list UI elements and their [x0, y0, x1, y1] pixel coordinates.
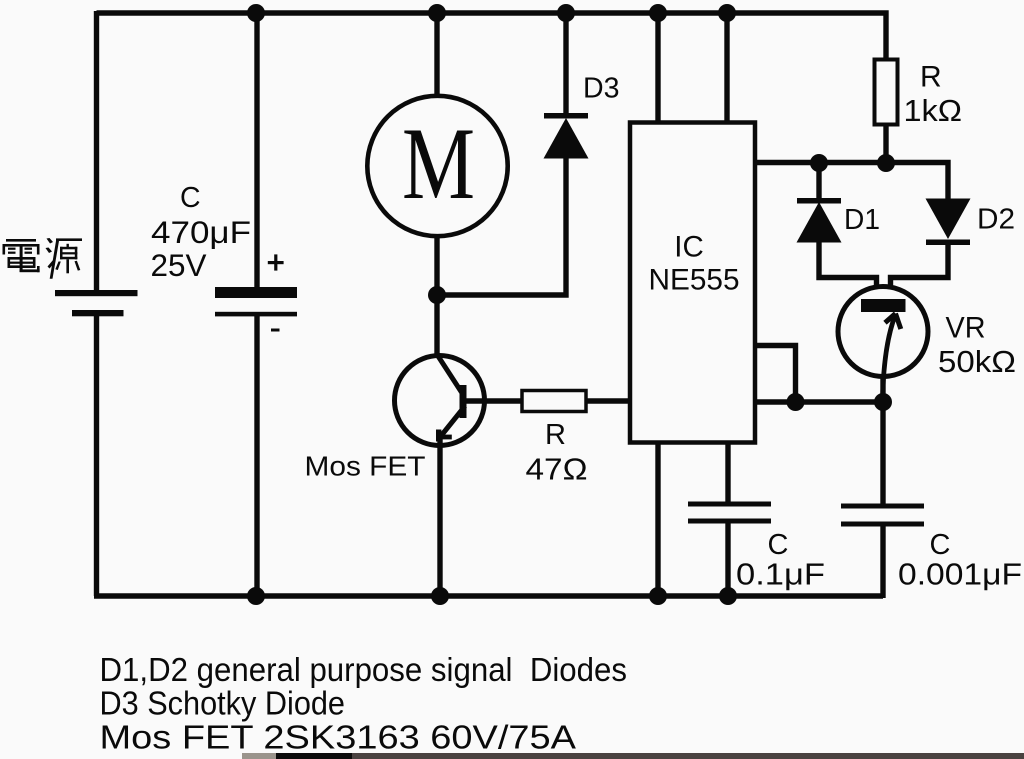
IC NE555 body [630, 123, 755, 443]
wire IC pin jog to control node [755, 346, 796, 403]
junction node bottom rail at C470 [247, 587, 265, 605]
screen artifact strip dark gray segment [352, 753, 1024, 759]
junction node D1 top [810, 154, 828, 172]
svg-text:25V: 25V [151, 247, 207, 283]
wire D3 cathode lead to top rail [563, 13, 568, 115]
junction node VR wiper [874, 393, 892, 411]
wire left vertical from top rail to battery [94, 11, 99, 291]
wire IC right pin to D1 D2 node row [755, 163, 948, 201]
junction node bottom rail at C 0.1uF [719, 587, 737, 605]
svg-text:R: R [920, 61, 942, 94]
wire C 0.1uF bottom plate to bottom rail [725, 522, 730, 596]
diode D1 triangle [797, 202, 842, 243]
transistor emitter stroke [441, 406, 466, 437]
potentiometer VR wiper arrowhead [885, 314, 896, 323]
svg-text:1kΩ: 1kΩ [904, 93, 963, 128]
wire IC right pin to VR wiper node [755, 399, 883, 404]
wire IC pin to C 0.1uF top plate [725, 441, 730, 502]
resistor R 1k body [875, 60, 898, 125]
svg-text:D1: D1 [844, 204, 880, 236]
svg-text:Mos FET 2SK3163 60V/75A: Mos FET 2SK3163 60V/75A [100, 719, 577, 756]
screen artifact strip gray fragment [242, 753, 276, 759]
potentiometer VR wiper arrow shaft [883, 315, 896, 403]
capacitor C 470uF thin plate [215, 312, 297, 317]
diode D2 cathode bar [926, 240, 970, 246]
capacitor C 470uF thick plate [215, 287, 297, 298]
label minus sign [271, 329, 280, 332]
junction node top rail at C470 [247, 4, 265, 22]
wire R1k bottom lead to node [883, 124, 888, 166]
junction node top rail at IC pin right [718, 4, 736, 22]
potentiometer VR element bar [861, 299, 906, 312]
junction node control pin [787, 393, 805, 411]
wire motor top lead [434, 13, 439, 97]
junction node top rail at IC pin left [649, 4, 667, 22]
wire capacitor C470 top lead [254, 13, 259, 289]
wire VR node to C 0.001uF top plate [880, 402, 885, 504]
transistor emitter lead wire [437, 438, 442, 596]
wire motor bottom lead to transistor node [434, 235, 439, 358]
transistor collector stroke [438, 356, 462, 393]
potentiometer VR circle [838, 287, 928, 377]
wire D1 anode down to VR top left [819, 241, 877, 302]
diode D3 triangle [544, 118, 589, 159]
junction node motor D3 [428, 286, 446, 304]
svg-text:0.1μF: 0.1μF [736, 557, 825, 592]
wire IC pin top-left to rail [655, 13, 660, 124]
wire IC pin top-right to rail [724, 13, 729, 124]
svg-text:50kΩ: 50kΩ [938, 345, 1016, 379]
screen artifact strip black segment [276, 753, 352, 759]
label 電源 kanji DEN [3, 239, 40, 272]
transistor base bar [460, 385, 467, 418]
label 源 kanji GEN [46, 238, 83, 279]
svg-text:VR: VR [946, 312, 986, 345]
junction node bottom rail at IC pin [649, 587, 667, 605]
svg-text:M: M [402, 107, 475, 221]
svg-text:Mos FET: Mos FET [305, 451, 426, 482]
svg-text:D3: D3 [583, 73, 620, 105]
battery 電源 long plate [55, 290, 138, 296]
capacitor C 0.1uF top plate [688, 502, 771, 507]
svg-text:0.001μF: 0.001μF [898, 557, 1022, 592]
diode D3 cathode bar [544, 113, 588, 119]
wire bottom rail [94, 593, 883, 598]
wire D1 cathode lead [816, 163, 821, 200]
wire R47 to IC [586, 398, 632, 403]
wire C 0.001uF bottom plate to bottom rail [880, 526, 885, 598]
svg-text:R: R [545, 419, 566, 451]
resistor R 47 body [522, 391, 586, 412]
wire D2 anode down to VR top right [891, 242, 949, 302]
capacitor C 0.1uF bottom plate [688, 519, 771, 524]
transistor Mos FET circle [395, 356, 485, 446]
label plus sign [268, 261, 284, 264]
capacitor C 0.001uF bottom plate [841, 522, 924, 527]
junction node R1k bottom [877, 154, 895, 172]
svg-text:IC: IC [674, 231, 704, 264]
diode D2 triangle [926, 199, 971, 240]
svg-text:C: C [180, 182, 201, 214]
diode D1 cathode bar [797, 198, 841, 204]
wire VR bottom lead [880, 374, 885, 404]
svg-text:D1,D2 general purpose signal: D1,D2 general purpose signal Diodes [100, 651, 628, 688]
wire battery to bottom rail [94, 316, 99, 596]
wire D3 anode lead down and left to motor node [437, 157, 566, 295]
motor M circle [367, 96, 507, 236]
junction node top rail at motor [428, 4, 446, 22]
transistor emitter arrowhead [436, 430, 441, 442]
junction node top rail at D3 [557, 4, 575, 22]
svg-text:NE555: NE555 [649, 264, 740, 297]
junction node bottom rail at transistor [431, 587, 449, 605]
svg-text:470μF: 470μF [151, 214, 251, 250]
battery 電源 short plate [72, 310, 124, 316]
wire capacitor C470 bottom lead [254, 316, 259, 596]
wire top rail with right drop to R1k [97, 13, 887, 61]
capacitor C 0.001uF top plate [841, 504, 924, 509]
svg-text:D3 Schotky Diode: D3 Schotky Diode [100, 685, 346, 722]
wire IC pin bottom-left to bottom rail [655, 441, 660, 596]
transistor base lead wire [466, 398, 522, 403]
svg-text:D2: D2 [977, 204, 1015, 236]
svg-text:47Ω: 47Ω [526, 452, 588, 487]
